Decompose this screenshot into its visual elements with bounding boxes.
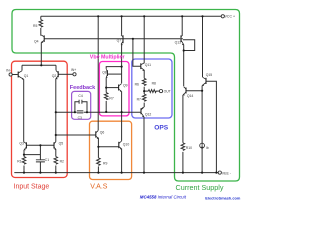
wire IN- to Q1 base — [12, 74, 18, 76]
junction VEE rail / Q12 emitter — [143, 172, 145, 174]
svg-text:Q12: Q12 — [145, 112, 152, 116]
wire feedback main right part — [84, 111, 122, 113]
junction VEE rail / R10 — [182, 172, 184, 174]
wire Q15 emitter down to current source — [201, 86, 203, 173]
input stage box (red) — [12, 61, 68, 177]
wire Q12 collector bend — [141, 107, 143, 109]
wire Q12 base from node — [122, 111, 141, 113]
junction VAS node / Q12 base — [121, 111, 123, 113]
wire R6 bottom junction — [143, 87, 145, 94]
wire Q3 emitter to R1 — [23, 150, 25, 157]
wire lower base rail Q3-Q5 — [26, 144, 54, 146]
wire feedback main y112.2 — [56, 111, 77, 113]
junction Q10 base / Q6 emitter — [97, 146, 99, 148]
wire Q1 emitter down to Q3 — [23, 79, 25, 142]
wire y154.6 horizontal — [24, 154, 40, 156]
junction VCC rail / Q11 collector — [143, 15, 145, 17]
svg-text:Q9: Q9 — [123, 84, 128, 88]
wire Q1 collector — [21, 65, 23, 70]
junction R1 top node — [23, 154, 25, 156]
junction VEE rail / C1 — [39, 172, 41, 174]
svg-text:R7: R7 — [137, 97, 141, 101]
wire VCC rail — [41, 15, 221, 17]
wire R2 bottom — [55, 166, 57, 173]
wire Q11 base drop from rail dot — [133, 39, 141, 66]
wire R7 bottom to node — [105, 101, 107, 112]
wire Q8 emitter chain down — [105, 78, 107, 93]
svg-text:Q1: Q1 — [24, 74, 29, 78]
vbe multiplier box (magenta) — [99, 62, 129, 116]
wire vbe top elbow — [106, 67, 121, 69]
junction VEE rail / current source — [201, 172, 203, 174]
wire Q11 collector drop x144.2 — [143, 16, 145, 63]
svg-text:C3: C3 — [78, 116, 82, 120]
resistor R10 — [181, 143, 185, 151]
wire Q12 emitter down to rail — [143, 117, 145, 173]
junction VCC rail / Q15 collector — [201, 15, 203, 17]
svg-text:Q11: Q11 — [145, 63, 151, 67]
junction base rail / Q11 base drop — [132, 38, 134, 40]
resistor R1 — [22, 157, 26, 165]
transistor Q11 — [141, 63, 144, 71]
transistor Q3 — [24, 142, 27, 150]
transistor Q1 — [18, 71, 24, 80]
terminal VEE — [218, 171, 221, 174]
wire R9 bottom — [97, 166, 99, 172]
terminal VCC — [221, 15, 224, 18]
wire Q15 collector drop — [202, 16, 204, 77]
resistor R7 vbe — [104, 93, 108, 100]
svg-text:MC4558 Internal Circuit: MC4558 Internal Circuit — [140, 194, 187, 199]
svg-text:OPS: OPS — [154, 125, 169, 132]
wire Q14 emitter down through R10 — [182, 95, 184, 173]
wire Q7 collector up — [121, 16, 123, 35]
junction VEE rail / Q10 emitter — [121, 172, 123, 174]
svg-text:ElectroSmash.com: ElectroSmash.com — [205, 195, 241, 200]
junction VEE rail / Q15 base line — [215, 172, 217, 174]
wire C1 top tee — [39, 145, 41, 159]
transistor Q10 — [119, 141, 122, 149]
svg-text:Feedback: Feedback — [70, 85, 96, 91]
wire Q10 base — [98, 146, 118, 148]
svg-text:Q5: Q5 — [59, 142, 64, 146]
wire Q15 base right and down — [206, 81, 216, 172]
junction Q3-Q5 base rail center — [39, 144, 41, 146]
wire Q8 base — [108, 73, 122, 75]
wire base rail y38.8 — [44, 38, 180, 40]
current supply box (green L-shape) — [12, 10, 240, 182]
wire Q11 emitter to R6 — [143, 70, 145, 78]
wire node to Q10 collector — [121, 112, 123, 141]
wire Q13 emitter down to Q14 — [183, 45, 185, 87]
junction Q14 base / Q15 emitter line — [201, 90, 203, 92]
svg-text:R2: R2 — [60, 159, 64, 163]
resistor R6 ops — [142, 78, 146, 85]
svg-text:V.A.S: V.A.S — [90, 184, 108, 191]
capacitor C1 — [36, 160, 45, 162]
resistor R2 — [54, 157, 58, 165]
svg-text:R7: R7 — [109, 97, 113, 101]
junction VCC rail / Q13 collector — [181, 15, 183, 17]
wire R7b bottom to Q12 — [143, 103, 145, 108]
transistor Q7 — [121, 35, 123, 45]
junction VCC rail / Q7 collector — [121, 15, 123, 17]
junction feedback right — [86, 111, 88, 113]
wire Q5 emitter to R2 — [55, 150, 57, 157]
junction feedback left — [74, 111, 76, 113]
wire Q4 emitter down to input node — [40, 43, 42, 66]
svg-text:Q14: Q14 — [187, 94, 194, 98]
svg-text:Q2: Q2 — [52, 74, 57, 78]
wire Q6 base — [56, 134, 96, 136]
wire Q10 emitter down — [121, 149, 123, 173]
wire Q2 base to IN+ — [58, 73, 73, 75]
junction Q9 base / Q8 emitter — [105, 87, 107, 89]
svg-text:Q4: Q4 — [34, 40, 39, 44]
svg-text:IN+: IN+ — [71, 68, 76, 72]
svg-text:Q7: Q7 — [117, 39, 122, 43]
wire Q6 emitter to R9 — [97, 138, 99, 158]
wire Q9 base — [106, 87, 118, 89]
junction Q13 collector-base tie — [183, 49, 185, 51]
svg-text:Input Stage: Input Stage — [14, 184, 50, 191]
svg-text:R1: R1 — [17, 159, 21, 163]
resistor R9 vas — [97, 158, 101, 166]
svg-text:Ib: Ib — [206, 146, 209, 150]
wire Q9 collector up — [121, 74, 123, 83]
svg-text:R10: R10 — [186, 146, 192, 150]
svg-text:Q8: Q8 — [102, 70, 107, 74]
svg-text:Q6: Q6 — [100, 131, 105, 135]
wire Q2 collector — [55, 65, 57, 70]
transistor Q14 — [183, 87, 186, 96]
wire R8 tap — [144, 90, 148, 92]
resistor R8 ops horizontal — [148, 90, 156, 93]
transistor Q5 — [54, 142, 57, 150]
svg-text:R9: R9 — [103, 161, 107, 165]
wire Q13 diode loop — [183, 40, 195, 51]
transistor Q9 — [119, 84, 122, 92]
wire R8 to OUT — [156, 90, 160, 92]
wire input top node horizontal — [22, 64, 56, 66]
feedback box (purple) — [72, 91, 91, 119]
transistor Q2 — [56, 71, 59, 80]
svg-text:R8: R8 — [152, 82, 156, 86]
wire Q14 base — [186, 90, 202, 92]
resistor R5 — [39, 20, 43, 28]
junction VEE rail / R1 — [23, 172, 25, 174]
junction input pair collector node — [40, 64, 42, 66]
transistor Q15 — [202, 77, 206, 86]
wire R5 stub top — [40, 16, 42, 19]
junction R6-R8-R7 node — [143, 90, 145, 92]
junction R7 bottom node — [105, 111, 107, 113]
terminal OUT — [159, 90, 162, 93]
svg-text:VEE -: VEE - — [222, 171, 232, 175]
svg-text:IN-: IN- — [6, 68, 11, 72]
capacitor C3 plates — [77, 111, 83, 113]
terminal IN- — [9, 73, 12, 76]
terminal IN+ — [73, 73, 76, 76]
junction VEE rail / R9 — [97, 172, 99, 174]
svg-text:VCC +: VCC + — [225, 15, 235, 19]
svg-text:C1: C1 — [45, 158, 49, 162]
svg-text:Vbe Multiplier: Vbe Multiplier — [90, 54, 125, 60]
capacitor C4 plates — [79, 100, 82, 104]
svg-text:C4: C4 — [78, 94, 82, 98]
svg-text:OUT: OUT — [164, 89, 171, 93]
svg-text:R6: R6 — [135, 83, 139, 87]
svg-text:Q13: Q13 — [175, 40, 182, 44]
wire feedback bypass loop — [75, 102, 87, 112]
svg-text:Current Supply: Current Supply — [176, 183, 224, 192]
junction VCC rail / Q6 collector drop — [97, 15, 99, 17]
junction Q2 emitter / Q6 base wire — [55, 134, 57, 136]
vas box (orange) — [90, 121, 132, 179]
wire R1 bottom — [23, 166, 25, 173]
current source Ib — [200, 143, 205, 148]
transistor Q4 — [41, 35, 44, 43]
ops box (blue) — [132, 59, 172, 118]
transistor Q12 — [141, 107, 144, 117]
transistor Q6 — [96, 131, 99, 139]
wire Q7 emitter down to vbe box — [121, 45, 123, 74]
junction VEE rail / R2 — [55, 172, 57, 174]
wire VEE rail — [14, 172, 218, 174]
wire Q2 emitter down to Q5 — [55, 79, 57, 142]
svg-text:Q10: Q10 — [123, 142, 130, 146]
svg-text:Q15: Q15 — [206, 73, 213, 77]
junction Q8 collector tie — [121, 66, 123, 68]
wire mirror drop x98.2 to Q6 collector — [97, 16, 99, 130]
svg-text:Q3: Q3 — [19, 142, 24, 146]
wire C1 bottom — [39, 162, 41, 173]
wire Q9 emitter down — [121, 92, 123, 112]
wire Q13 collector drop — [181, 16, 183, 35]
wire R5 to Q4 — [40, 28, 42, 36]
resistor R7b ops — [142, 94, 146, 101]
transistor Q13 — [181, 35, 184, 45]
junction Q2 emitter / feedback wire — [55, 111, 57, 113]
svg-text:R5: R5 — [33, 24, 37, 28]
transistor Q8 — [106, 69, 108, 78]
